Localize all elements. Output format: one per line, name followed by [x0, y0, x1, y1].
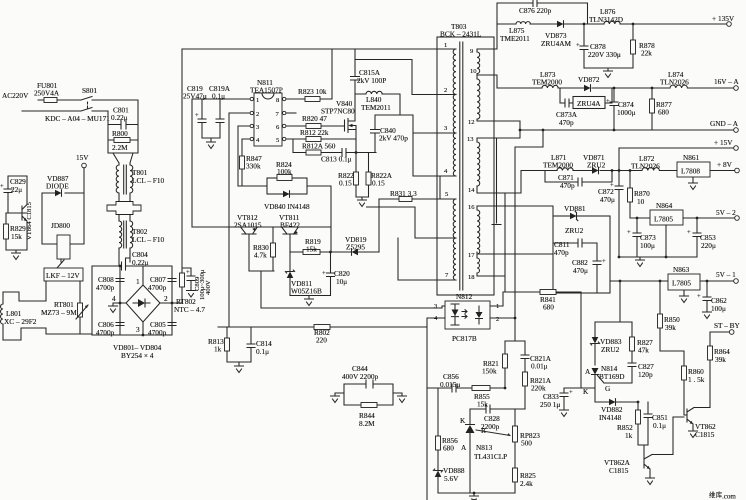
svg-text:TME2011: TME2011	[500, 34, 530, 43]
resistor R813	[208, 327, 230, 362]
svg-text:1: 1	[444, 42, 447, 49]
svg-text:TEA1507P: TEA1507P	[250, 86, 283, 95]
svg-text:5V – 2: 5V – 2	[716, 208, 736, 217]
svg-text:120p: 120p	[638, 370, 653, 379]
capacitor C807	[148, 275, 176, 292]
svg-text:1k: 1k	[214, 345, 222, 354]
diode VD872	[578, 75, 600, 91]
capacitor C806	[96, 320, 124, 337]
resistor R860	[682, 366, 705, 415]
svg-text:15k: 15k	[11, 232, 22, 241]
svg-text:18: 18	[468, 274, 475, 281]
capacitor C840	[371, 115, 441, 199]
svg-text:Z5295: Z5295	[346, 243, 365, 252]
wire GND-A bus	[494, 121, 734, 318]
svg-text:TLN2026: TLN2026	[660, 78, 689, 87]
svg-text:5.6V: 5.6V	[444, 474, 459, 483]
resistor R819	[290, 237, 330, 255]
resistor R841	[503, 290, 581, 312]
svg-text:+: +	[186, 269, 190, 276]
svg-text:LKF – 12V: LKF – 12V	[46, 271, 80, 280]
relay coil JD800	[51, 221, 70, 262]
svg-text:13: 13	[467, 136, 474, 143]
svg-text:680: 680	[543, 303, 554, 312]
wire T802 to bridge row	[119, 249, 130, 266]
ground C819	[207, 142, 216, 149]
transformer T801	[116, 163, 164, 195]
junction node 2	[171, 302, 174, 305]
transformer T803 secondary winding 10-12	[468, 75, 494, 126]
wire node2 to B+ riser	[172, 302, 182, 304]
node +135V terminal	[712, 14, 735, 26]
svg-text:+ 135V: + 135V	[712, 14, 735, 23]
svg-text:MZ73 – 9M: MZ73 – 9M	[41, 308, 77, 317]
transformer T803 primary winding 3-4	[437, 125, 456, 176]
regulator N861 L7808	[677, 153, 735, 190]
svg-text:GND – A: GND – A	[710, 119, 739, 128]
wire N811 pin1 net	[192, 99, 250, 227]
svg-text:250 1μ: 250 1μ	[540, 400, 560, 409]
transformer T803 aux winding 5-7	[437, 191, 456, 280]
transformer T803 secondary winding 13-14	[467, 136, 494, 194]
svg-text:0.1μ: 0.1μ	[256, 347, 269, 356]
svg-text:400V: 400V	[205, 280, 212, 295]
svg-text:VD840 IN4148: VD840 IN4148	[264, 202, 310, 211]
wire T801 to X-cap	[119, 195, 130, 202]
svg-text:+: +	[569, 389, 573, 396]
inductor L874	[660, 70, 689, 88]
svg-text:100μ: 100μ	[711, 304, 726, 313]
svg-text:400V 2200p: 400V 2200p	[342, 372, 379, 381]
wire pin3 net	[413, 132, 437, 134]
transistor VT811 BF422	[279, 213, 300, 252]
svg-text:BY254 × 4: BY254 × 4	[121, 351, 154, 360]
diode VD840	[264, 191, 310, 211]
resistor R877	[650, 87, 673, 130]
resistor R850	[658, 281, 685, 366]
svg-text:TLN3142D: TLN3142D	[589, 15, 623, 24]
svg-text:39k: 39k	[715, 355, 726, 364]
wire line filter box	[97, 100, 138, 153]
capacitor C828	[470, 405, 525, 431]
opto-coupler N812 PC817B	[434, 292, 499, 343]
potentiometer RP823	[513, 409, 541, 468]
svg-text:VD872: VD872	[578, 75, 600, 84]
svg-text:16V – A: 16V – A	[714, 77, 739, 86]
fuse FU801	[34, 81, 60, 103]
node AC220V input	[2, 91, 29, 100]
svg-text:XC – 29F2: XC – 29F2	[4, 317, 37, 326]
svg-text:A: A	[461, 443, 467, 452]
svg-text:39k: 39k	[665, 323, 676, 332]
capacitor C882 electrolytic	[572, 243, 606, 293]
svg-text:1k: 1k	[625, 431, 633, 440]
svg-text:+: +	[0, 183, 4, 190]
svg-text:VD881: VD881	[564, 204, 586, 213]
svg-text:L7808: L7808	[681, 167, 700, 176]
wire snubber to pin2	[355, 60, 437, 95]
wire zener common with ground	[290, 296, 331, 300]
svg-text:+: +	[195, 112, 199, 119]
regulator N864 L7805	[650, 201, 735, 257]
capacitor C844 in box	[342, 364, 393, 405]
svg-text:N864: N864	[656, 201, 673, 210]
transformer T803 primary winding 2-3	[437, 87, 456, 133]
ground C878 R878	[584, 68, 633, 78]
wire VD819 to R831	[378, 199, 380, 252]
svg-text:PC817B: PC817B	[452, 334, 477, 343]
wire pin14 to 15V row	[494, 171, 677, 194]
resistor R823	[286, 49, 332, 102]
svg-text:R812 22k: R812 22k	[300, 128, 329, 137]
thyristor N814 BT169D	[583, 364, 632, 396]
svg-text:2.2M: 2.2M	[112, 143, 128, 152]
svg-text:R: R	[481, 426, 486, 435]
svg-text:R823 10k: R823 10k	[298, 87, 327, 96]
wire N811 pin7 stub	[286, 112, 296, 114]
wire pin16 to snubber box	[494, 206, 553, 216]
wire VT864 emitter to ground	[6, 224, 27, 253]
svg-text:2: 2	[496, 316, 499, 323]
svg-text:G: G	[605, 384, 611, 393]
svg-text:W05Z16B: W05Z16B	[291, 287, 322, 296]
svg-text:250V4A: 250V4A	[34, 89, 60, 98]
op-amp U1 N811 TEA1507P	[250, 78, 286, 146]
transistor VT862A	[604, 445, 673, 485]
svg-text:TL431CLP: TL431CLP	[474, 452, 507, 461]
capacitor C808	[96, 275, 124, 292]
svg-text:TEM2000: TEM2000	[543, 161, 573, 170]
svg-text:2: 2	[444, 87, 447, 94]
svg-text:ZRU4AM: ZRU4AM	[541, 39, 572, 48]
transformer T802	[119, 220, 165, 249]
transformer T803 secondary winding 16-17	[468, 204, 494, 259]
svg-text:220V 330μ: 220V 330μ	[588, 50, 621, 59]
svg-text:5V – 1: 5V – 1	[716, 270, 736, 279]
svg-text:DIODE: DIODE	[46, 182, 69, 191]
capacitor C878 electrolytic	[576, 23, 621, 68]
svg-text:TEM2000: TEM2000	[532, 78, 562, 87]
capacitor C819	[183, 84, 207, 138]
resistor R831	[379, 189, 441, 202]
wire +15V rail	[619, 148, 734, 171]
svg-text:4700p: 4700p	[96, 328, 115, 337]
wire degauss loop	[3, 281, 92, 340]
wire to T801	[113, 153, 133, 163]
capacitor C814	[247, 327, 272, 362]
wire pin10 to 16V rail	[494, 75, 734, 88]
svg-text:ZRU2: ZRU2	[601, 345, 620, 354]
svg-text:2SA1015: 2SA1015	[234, 221, 262, 230]
inductor L872	[631, 154, 660, 171]
svg-text:TEM2011: TEM2011	[361, 103, 391, 112]
capacitor C856	[427, 372, 472, 392]
svg-text:10: 10	[470, 68, 477, 75]
resistor R827	[630, 322, 654, 363]
svg-text:0.01μ: 0.01μ	[531, 362, 548, 371]
capacitor C833 electrolytic	[540, 388, 573, 417]
capacitor C813	[321, 149, 356, 164]
capacitor C876	[519, 1, 552, 16]
svg-text:100μ: 100μ	[640, 241, 655, 250]
wire cathode node	[564, 388, 595, 402]
ground at bridge node 4	[109, 303, 121, 313]
svg-text:2: 2	[256, 111, 259, 118]
diode VD883 zener	[590, 322, 622, 365]
node ST-BY terminal	[714, 321, 741, 334]
wire 135V rail	[497, 23, 727, 25]
transformer T803 secondary winding 17-18	[468, 254, 494, 281]
svg-text:L7805: L7805	[672, 279, 691, 288]
ground feedback bus	[438, 493, 515, 496]
diode VD887	[46, 174, 69, 196]
ground C844 left	[331, 393, 345, 403]
inductor L801	[1, 292, 37, 340]
capacitor C819A	[209, 84, 231, 138]
wire shield stub	[492, 138, 501, 225]
svg-text:LCL – F10: LCL – F10	[132, 176, 165, 185]
svg-text:ZRU2: ZRU2	[587, 161, 606, 170]
inductor L873	[532, 70, 562, 88]
svg-text:IN4148: IN4148	[599, 413, 622, 422]
svg-text:470μ: 470μ	[573, 266, 588, 275]
svg-text:470p: 470p	[559, 118, 574, 127]
svg-text:.com: .com	[722, 493, 736, 500]
capacitor C815A	[351, 49, 387, 85]
resistor R878	[631, 23, 656, 68]
wire R847 to comp box	[238, 186, 331, 252]
resistor R825	[513, 468, 537, 493]
svg-text:C876 220p: C876 220p	[519, 6, 552, 15]
svg-text:0.22μ: 0.22μ	[111, 113, 128, 122]
resistor R847	[240, 139, 263, 186]
diode VD873	[541, 21, 572, 48]
svg-text:2: 2	[164, 294, 168, 303]
wire X-cap to T802	[119, 215, 130, 221]
ground C809	[187, 288, 196, 298]
svg-text:NTC – 4.7: NTC – 4.7	[174, 305, 205, 314]
capacitor C805	[148, 320, 176, 337]
node 5V-1 terminal	[716, 270, 738, 283]
diode VD888 zener	[433, 466, 465, 493]
wire B+ bus	[182, 48, 440, 50]
wire opto return bus	[261, 307, 442, 309]
transistor VT862	[687, 408, 716, 440]
inductor L840	[355, 91, 400, 115]
svg-text:+: +	[697, 293, 701, 300]
diode bridge VD801-VD804	[112, 266, 172, 360]
svg-text:1: 1	[136, 277, 140, 286]
svg-text:2.4k: 2.4k	[520, 479, 533, 488]
svg-text:17: 17	[468, 252, 475, 259]
switch S801	[81, 86, 108, 111]
wire base rail	[192, 226, 331, 228]
svg-text:+: +	[322, 270, 326, 277]
regulator N863 L7805	[668, 265, 734, 303]
svg-text:维库: 维库	[709, 490, 723, 499]
wire R841 to crowbar cathode	[580, 292, 582, 388]
svg-text:AC220V: AC220V	[2, 91, 29, 100]
wire bridge box	[92, 266, 172, 335]
junction source sense node	[340, 152, 376, 154]
svg-text:500: 500	[521, 439, 532, 448]
svg-text:N813: N813	[476, 443, 493, 452]
svg-text:C813 0.1μ: C813 0.1μ	[321, 155, 352, 164]
svg-text:470p: 470p	[560, 181, 575, 190]
diode VD811 zener	[285, 252, 322, 296]
ground sense resistors	[356, 197, 369, 207]
node KDC-A04-MU171	[45, 114, 110, 123]
ground R813 C814	[227, 362, 251, 373]
svg-text:0.15: 0.15	[372, 179, 385, 188]
svg-text:S801: S801	[82, 86, 97, 95]
svg-text:L7805: L7805	[654, 215, 673, 224]
inductor L875	[500, 22, 530, 43]
svg-text:680: 680	[443, 444, 454, 453]
svg-text:3: 3	[136, 325, 140, 334]
ground VD811 C820	[305, 299, 314, 306]
capacitor C873 electrolytic	[627, 217, 656, 257]
svg-text:15k: 15k	[477, 400, 488, 409]
svg-text:150k: 150k	[482, 367, 497, 376]
resistor R870	[628, 169, 651, 218]
capacitor C871	[545, 169, 613, 190]
svg-text:ZRU4A: ZRU4A	[577, 99, 601, 108]
wire pin7 return	[398, 238, 441, 280]
svg-text:ZRU2: ZRU2	[565, 226, 584, 235]
capacitor C827	[628, 362, 654, 383]
resistor R821A	[523, 372, 552, 409]
wire 15V to diode and relay coil	[42, 168, 84, 244]
diode ZRU4A snubber	[556, 88, 612, 127]
svg-text:470μ: 470μ	[600, 195, 615, 204]
svg-text:8.2M: 8.2M	[359, 419, 375, 428]
resistor R822A	[366, 153, 393, 198]
resistor R864	[708, 332, 731, 408]
capacitor C829	[0, 176, 27, 201]
wire VT862A collector up	[673, 417, 684, 455]
svg-text:680: 680	[658, 108, 669, 117]
svg-text:25V47μ: 25V47μ	[183, 92, 207, 101]
diode VD882	[595, 399, 638, 422]
resistor R829	[4, 213, 28, 250]
node 16V-A terminal	[714, 77, 739, 90]
wire N811 pin2 net	[229, 113, 250, 327]
svg-text:+: +	[606, 98, 610, 105]
wire pin18 to feedback node	[494, 193, 505, 292]
svg-text:+: +	[687, 229, 691, 236]
capacitor C862 electrolytic	[697, 280, 727, 319]
transformer T803 secondary winding 9-10	[470, 48, 494, 75]
capacitor C801	[111, 106, 129, 130]
transistor VT812 2SA1015	[234, 213, 274, 308]
resistor R812A	[293, 139, 340, 155]
transistor VT864	[8, 200, 33, 241]
node +15V terminal	[714, 138, 738, 150]
svg-text:15V: 15V	[76, 153, 89, 162]
svg-text:12: 12	[468, 119, 475, 126]
wire N811 pin3 net	[238, 126, 250, 186]
capacitor X-cap cross box	[107, 202, 141, 215]
resistor R802	[218, 325, 427, 345]
wire C819 ground	[202, 138, 220, 142]
wire pin9 to 135V rail	[494, 3, 588, 49]
svg-text:0.1μ: 0.1μ	[212, 92, 225, 101]
node 5V-2 terminal	[716, 208, 739, 220]
svg-text:1: 1	[256, 97, 259, 104]
node GND-A terminal	[710, 119, 739, 132]
svg-text:100k: 100k	[277, 167, 292, 176]
node 15V terminal	[76, 153, 89, 168]
resistor R820	[286, 114, 344, 129]
svg-text:10μ: 10μ	[336, 277, 347, 286]
svg-text:330k: 330k	[246, 162, 261, 171]
resistor R856	[436, 388, 459, 466]
resistor R844	[359, 403, 377, 429]
svg-text:C1815: C1815	[609, 466, 629, 475]
svg-text:4700p: 4700p	[96, 283, 115, 292]
inductor L876	[589, 7, 623, 24]
transformer T803 primary winding 1-2	[437, 42, 456, 94]
svg-text:0.1μ: 0.1μ	[653, 421, 666, 430]
svg-text:+ 15V: + 15V	[714, 138, 733, 147]
junction node 4	[119, 302, 122, 305]
capacitor C804	[122, 249, 149, 270]
resistor R824 with diode box	[267, 160, 307, 194]
resistor R812	[286, 128, 356, 142]
svg-text:0.015μ: 0.015μ	[440, 380, 460, 389]
svg-text:N861: N861	[683, 153, 700, 162]
svg-text:+ 8V: + 8V	[717, 160, 733, 169]
svg-text:R800: R800	[112, 129, 128, 138]
wire AC line 1	[38, 99, 81, 101]
svg-text:0.15: 0.15	[339, 179, 352, 188]
svg-text:470p: 470p	[554, 248, 569, 257]
wire 5V-1 input bus	[610, 280, 668, 282]
svg-text:22k: 22k	[641, 49, 652, 58]
resistor RT802	[174, 273, 205, 314]
svg-text:1 . 5k: 1 . 5k	[688, 375, 705, 384]
svg-text:16: 16	[468, 204, 475, 211]
svg-text:STP7NC80: STP7NC80	[321, 107, 355, 116]
svg-text:N812: N812	[456, 292, 473, 301]
svg-text:BF422: BF422	[280, 221, 300, 230]
capacitor C811	[553, 239, 597, 257]
svg-text:4700p: 4700p	[148, 283, 167, 292]
wire crowbar sense tap	[595, 281, 632, 322]
diode VD881 zener	[564, 204, 586, 235]
wire AC line 2	[22, 110, 81, 112]
thermistor RT801	[41, 300, 88, 319]
node +8V terminal	[717, 160, 739, 173]
svg-text:15k: 15k	[306, 245, 317, 254]
capacitor C809 electrolytic	[186, 268, 212, 300]
ground VT864	[12, 253, 21, 260]
wire opto pin4 down	[427, 318, 445, 500]
capacitor C821A	[521, 341, 552, 372]
capacitor C851	[644, 402, 668, 445]
svg-text:4700p: 4700p	[148, 328, 167, 337]
capacitor C820 electrolytic	[322, 252, 350, 296]
resistor R830	[253, 227, 276, 271]
svg-text:K: K	[460, 416, 466, 425]
junction Vcc node	[329, 251, 332, 254]
svg-text:TLN2026: TLN2026	[631, 162, 660, 171]
svg-text:2kV 470p: 2kV 470p	[379, 134, 408, 143]
svg-text:22μ: 22μ	[11, 185, 22, 194]
svg-text:BT169D: BT169D	[599, 372, 625, 381]
svg-text:4.7k: 4.7k	[254, 251, 267, 260]
